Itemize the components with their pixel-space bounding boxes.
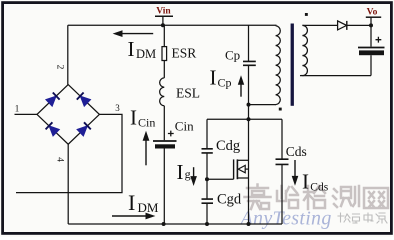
svg-text:3: 3 [115,103,120,113]
diode D4 [77,122,91,136]
current arrow Ig [190,167,197,186]
bridge rectifier outline [37,85,99,145]
transistor Q1 mosfet [234,119,249,224]
svg-text:Cds: Cds [310,182,328,194]
junction dot rail [247,117,251,121]
svg-text:Cp: Cp [218,76,232,90]
wire bottom bus [68,223,282,225]
svg-text:I: I [128,37,135,61]
current arrow ICp [238,75,244,96]
node Vin [155,7,173,28]
wire mosfet rail [207,118,282,120]
label Cin [175,118,194,133]
svg-text:I: I [130,106,137,130]
wire ESL to Cin [163,106,165,140]
label ESL [176,85,200,100]
capacitor Cds [276,119,289,224]
svg-text:I: I [128,190,135,215]
svg-text:I: I [210,66,217,90]
svg-text:g: g [185,167,191,181]
polarity dot primary [279,108,282,111]
diode output [338,21,371,30]
label Cp [225,48,240,63]
diode D2 [77,93,91,107]
label Cds [286,144,307,159]
wire gate lead [207,178,234,180]
transformer primary winding [276,26,281,105]
svg-text:2: 2 [55,65,65,70]
resistor ESR [162,25,167,78]
svg-text:AnyTesting: AnyTesting [239,208,332,230]
svg-text:4: 4 [55,157,65,162]
node 4 [55,157,65,162]
inductor ESL [160,78,165,106]
wire secondary bottom [300,75,371,77]
diode D3 [46,122,60,136]
current arrow IDM top [113,30,154,37]
svg-text:Vin: Vin [156,7,171,17]
svg-text:I: I [177,160,184,184]
watermark text 嘉峪检测网 [245,185,389,210]
wire node2 riser [67,25,69,84]
svg-text:Cdg: Cdg [216,138,240,154]
label Cgd [217,192,242,208]
capacitor output [358,25,385,75]
wire secondary top [302,24,337,26]
transformer secondary winding [302,25,307,75]
current arrow ICds [292,160,299,186]
junction dot gate [205,177,209,181]
capacitor Cin [153,131,177,224]
node Vo [366,8,381,28]
node 1 wire stub [15,113,38,115]
current arrow ICin [143,131,150,166]
capacitor Cdg [202,149,213,199]
svg-text:I: I [302,170,309,194]
wire primary bottom [249,104,277,106]
label ICp [210,66,232,90]
junction dot Cgd bottom [205,222,209,226]
junction dot primary bottom [247,103,251,107]
svg-text:1: 1 [15,104,20,114]
watermark text AnyTesting [239,208,332,230]
junction dot source bottom [247,222,251,226]
svg-text:Vo: Vo [367,8,378,18]
svg-text:ESR: ESR [172,46,197,61]
node 3 wire to corner [16,114,122,192]
svg-text:Cp: Cp [225,48,240,63]
label Cdg [216,138,240,154]
svg-text:Cin: Cin [175,118,194,133]
label ICds [302,170,329,194]
diode D1 [46,93,60,107]
svg-text:Cin: Cin [138,116,155,130]
label Ig [177,160,191,184]
transformer core [291,24,294,106]
wire Cdg branch upper [206,119,208,148]
node 3 [115,103,120,113]
wire top bus [68,24,277,26]
node 4 drop wire [67,144,69,224]
svg-text:DM: DM [136,47,156,61]
capacitor Cp [243,25,256,119]
svg-text:DM: DM [138,200,159,215]
label IDM top [128,37,157,61]
label ESR [172,46,197,61]
label ICin [130,106,155,130]
svg-text:Cgd: Cgd [217,192,242,208]
capacitor Cgd [202,199,214,224]
polarity dot secondary [305,13,308,16]
watermark text 松哥电源 [338,213,387,223]
node 2 [55,65,65,70]
svg-text:ESL: ESL [176,85,200,100]
svg-text:Cds: Cds [286,144,307,159]
node 1 [15,104,20,114]
label IDM bottom [128,190,159,215]
junction dot Cin-bottom [162,222,166,226]
current arrow IDM bottom [112,213,155,220]
